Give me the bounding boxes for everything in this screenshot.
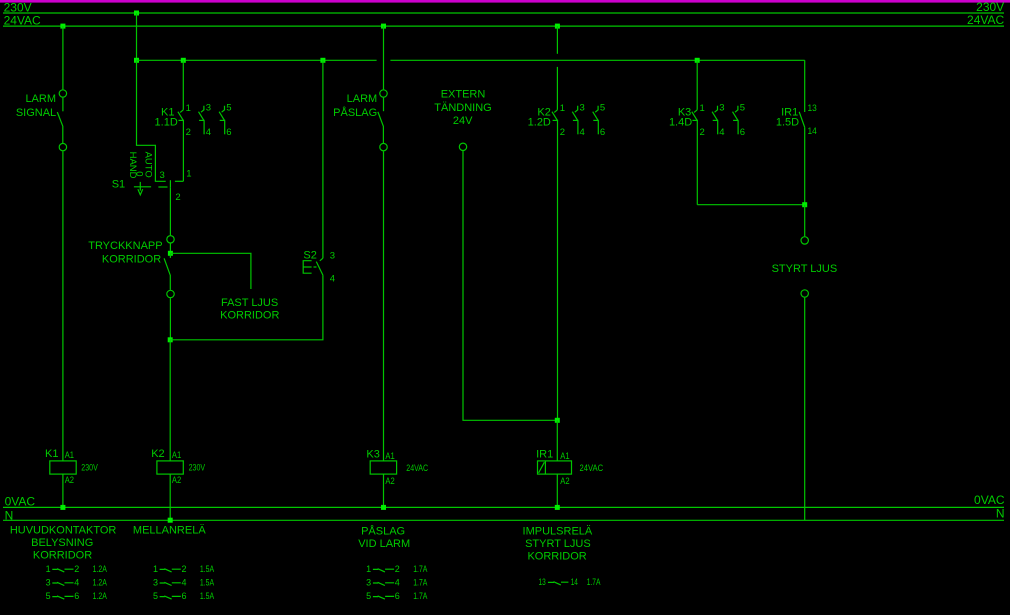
svg-text:1: 1 (186, 103, 191, 114)
pin 3 label K1 (206, 103, 211, 114)
contact table K3 row 1-2 (366, 564, 427, 574)
contact table K2 row 5-6 (153, 591, 214, 601)
wire from 24VAC bus down to LARM SIGNAL switch (62, 26, 64, 89)
svg-text:A2: A2 (65, 475, 74, 486)
svg-text:SIGNAL: SIGNAL (16, 107, 56, 119)
pin 4 label K3 (719, 127, 724, 138)
switch S2 (303, 249, 323, 275)
svg-text:1.2A: 1.2A (93, 591, 107, 601)
svg-text:14: 14 (808, 126, 817, 137)
pin 14 label IR1 (808, 126, 817, 137)
pin 5 label K2 (600, 103, 605, 114)
terminal circle upper LARM SIGNAL (59, 90, 66, 97)
node junction rail at x136 (134, 58, 139, 63)
wire K2 coil A2 to N (169, 474, 171, 520)
pin 6 label K1 (226, 127, 231, 138)
svg-text:0VAC: 0VAC (5, 494, 36, 508)
wire EXTERN TANDNING down and right to K2 output node (463, 151, 557, 420)
svg-text:13: 13 (808, 103, 817, 114)
node junction EXTERN join (555, 418, 560, 423)
pin 13 label IR1 (808, 103, 817, 114)
contact table K1 row 1-2 (46, 564, 107, 574)
svg-text:STYRT LJUS: STYRT LJUS (772, 263, 838, 275)
svg-text:N: N (996, 506, 1005, 520)
svg-text:1: 1 (366, 564, 371, 574)
svg-text:KORRIDOR: KORRIDOR (102, 254, 161, 266)
svg-text:4: 4 (206, 127, 211, 138)
bus N (3, 506, 1005, 522)
svg-text:S2: S2 (303, 249, 316, 261)
svg-text:24VAC: 24VAC (580, 463, 604, 473)
svg-text:A2: A2 (172, 475, 181, 486)
wire LARM SIGNAL to K1 coil A1 (62, 151, 64, 461)
svg-text:MELLANRELÄ: MELLANRELÄ (133, 525, 206, 537)
svg-text:5: 5 (740, 103, 745, 114)
contactor contact K2 1.2D main contact 1-2 (552, 110, 558, 421)
wire K3 contact output right to IR1 node (697, 204, 804, 206)
terminal circle upper STYRT LJUS (801, 237, 808, 244)
node junction K1 on 0VAC (60, 505, 65, 510)
terminal circle lower STYRT LJUS (801, 290, 808, 297)
svg-text:6: 6 (740, 127, 745, 138)
coil K1 (45, 448, 98, 486)
node junction on 230V bus at K1 branch (134, 11, 139, 16)
wire K3 coil A2 to 0VAC (383, 474, 385, 507)
label MELLANRELA (133, 525, 206, 537)
label HUVUDKONTAKTOR BELYSNING KORRIDOR (10, 525, 117, 562)
wire K1 coil A2 to 0VAC (62, 474, 64, 507)
svg-text:1.2D: 1.2D (528, 117, 551, 129)
svg-text:IR1: IR1 (536, 448, 553, 460)
svg-text:1.4D: 1.4D (669, 117, 692, 129)
svg-text:6: 6 (226, 127, 231, 138)
coil K2 (151, 448, 205, 486)
switch LARM SIGNAL (16, 93, 63, 143)
svg-text:EXTERN: EXTERN (441, 88, 486, 100)
wire circle to branch node (169, 243, 171, 253)
svg-text:BELYSNING: BELYSNING (31, 537, 93, 549)
svg-text:3: 3 (160, 170, 165, 181)
svg-text:STYRT LJUS: STYRT LJUS (525, 538, 591, 550)
svg-text:N: N (5, 508, 14, 522)
svg-text:13: 13 (539, 577, 546, 587)
svg-text:1: 1 (700, 103, 705, 114)
svg-text:1.2A: 1.2A (93, 578, 107, 588)
wire rail corner down to IR1 contact (804, 60, 806, 112)
svg-text:6: 6 (182, 591, 187, 601)
svg-text:A1: A1 (172, 450, 181, 461)
pin 2 label K3 (700, 127, 705, 138)
node junction on 24VAC bus at LARM SIGNAL branch (60, 24, 65, 29)
svg-text:2: 2 (560, 127, 565, 138)
wire join node down to K2 coil A1 (169, 340, 171, 461)
svg-text:3: 3 (330, 250, 335, 261)
svg-text:1.5A: 1.5A (200, 578, 214, 588)
wire 24VAC down to K2 contact upper part (556, 26, 558, 54)
svg-text:230V: 230V (81, 462, 98, 472)
svg-text:230V: 230V (4, 0, 32, 14)
svg-text:KORRIDOR: KORRIDOR (33, 549, 92, 561)
svg-text:2: 2 (175, 192, 180, 203)
coil IR1 impulse relay (536, 448, 603, 487)
svg-text:1: 1 (560, 103, 565, 114)
pin 2 label K2 (560, 127, 565, 138)
svg-text:3: 3 (580, 103, 585, 114)
svg-text:3: 3 (719, 103, 724, 114)
svg-text:4: 4 (580, 127, 585, 138)
pin 4 label S2 (330, 274, 335, 285)
svg-text:1.7A: 1.7A (413, 591, 427, 601)
wire S2 down and left to join node (170, 275, 323, 340)
svg-text:24VAC: 24VAC (967, 13, 1004, 27)
svg-text:K1: K1 (45, 448, 58, 460)
contactor contact K3 spare 5-6 (733, 106, 739, 135)
pin 3 label K3 (719, 103, 724, 114)
pin 5 label K1 (226, 103, 231, 114)
svg-text:4: 4 (182, 578, 187, 588)
wire S1 output down to push-button (169, 188, 171, 235)
bus 230V (3, 0, 1004, 14)
svg-text:6: 6 (74, 591, 79, 601)
svg-text:HUVUDKONTAKTOR: HUVUDKONTAKTOR (10, 525, 117, 537)
pin 5 label K3 (740, 103, 745, 114)
svg-text:14: 14 (571, 577, 578, 587)
contact table K3 row 5-6 (366, 591, 427, 601)
pin 4 label K2 (580, 127, 585, 138)
svg-text:1.1D: 1.1D (155, 117, 178, 129)
node junction K3 on 0VAC (381, 505, 386, 510)
wire rail right segment (390, 59, 804, 61)
terminal circle lower LARM PASLAG (380, 143, 387, 150)
contactor contact K1 spare 3-4 (199, 106, 205, 135)
label K2 (528, 107, 551, 129)
svg-text:2: 2 (186, 127, 191, 138)
svg-text:A1: A1 (560, 451, 569, 462)
svg-text:S1: S1 (112, 179, 125, 191)
svg-text:FAST LJUS: FAST LJUS (221, 297, 278, 309)
svg-text:1: 1 (153, 564, 158, 574)
contact table K2 row 1-2 (153, 564, 214, 574)
svg-text:1.5A: 1.5A (200, 591, 214, 601)
svg-text:230V: 230V (189, 462, 206, 472)
node junction on 24VAC bus at K2 branch (555, 24, 560, 29)
svg-text:2: 2 (182, 564, 187, 574)
coil K3 (366, 448, 428, 487)
svg-text:0VAC: 0VAC (974, 493, 1005, 507)
contact table K1 row 5-6 (46, 591, 107, 601)
svg-text:IMPULSRELÄ: IMPULSRELÄ (523, 525, 593, 537)
svg-text:4: 4 (330, 274, 335, 285)
svg-text:TÄNDNING: TÄNDNING (434, 102, 491, 114)
pin 1 label K1 (186, 103, 191, 114)
svg-text:24VAC: 24VAC (406, 463, 428, 473)
terminal circle lower LARM SIGNAL (59, 143, 66, 150)
contact table IR1 row 13-14 (539, 577, 601, 587)
svg-text:K3: K3 (366, 448, 379, 460)
wire 24VAC down to LARM PASLAG (383, 26, 385, 89)
svg-text:3: 3 (206, 103, 211, 114)
pin 2 label K1 (186, 127, 191, 138)
svg-text:A2: A2 (385, 476, 394, 487)
label K3 (669, 107, 692, 129)
svg-text:5: 5 (600, 103, 605, 114)
pin 3 label K2 (580, 103, 585, 114)
pin 6 label K3 (740, 127, 745, 138)
svg-text:1.5D: 1.5D (776, 117, 799, 129)
terminal circle lower TRYCKKNAPP (167, 290, 174, 297)
terminal circle upper LARM PASLAG (380, 90, 387, 97)
svg-text:A1: A1 (65, 450, 74, 461)
node junction rail at K1 contact (181, 58, 186, 63)
svg-text:3: 3 (366, 578, 371, 588)
label IR1 (776, 107, 799, 129)
wire 230V bus down to rail (136, 13, 138, 60)
wire TRYCKKNAPP down to S2 join node (169, 298, 171, 340)
pin 1 label K2 (560, 103, 565, 114)
svg-text:KORRIDOR: KORRIDOR (527, 550, 586, 562)
svg-text:3: 3 (46, 578, 51, 588)
top border bar (0, 0, 1010, 3)
svg-text:LARM: LARM (347, 93, 378, 105)
contactor contact K1 1.1D main contact 1-2 (178, 60, 184, 181)
wire rail down to K3 contact (696, 60, 698, 110)
label FAST LJUS KORRIDOR (220, 297, 279, 322)
svg-text:2: 2 (700, 127, 705, 138)
node junction rail at K3 contact (695, 58, 700, 63)
pin 2 label S1 (175, 192, 180, 203)
node junction on 24VAC bus at LARM PASLAG branch (381, 24, 386, 29)
wire node down to IR1 coil A1 (556, 420, 558, 461)
svg-text:5: 5 (46, 591, 51, 601)
svg-text:230V: 230V (976, 0, 1004, 14)
wire node down to STYRT LJUS terminal (804, 205, 806, 237)
pin 6 label K2 (600, 127, 605, 138)
svg-text:6: 6 (600, 127, 605, 138)
svg-text:PÅSLAG: PÅSLAG (361, 524, 405, 537)
wire LARM PASLAG to K3 coil A1 (383, 151, 385, 461)
contact table K1 row 3-4 (46, 578, 107, 588)
svg-text:6: 6 (395, 591, 400, 601)
wire rail down and jog to S1 pin 3 (137, 60, 166, 181)
label IMPULSRELA STYRT LJUS KORRIDOR (523, 525, 593, 562)
svg-text:1: 1 (186, 169, 191, 180)
svg-text:A2: A2 (560, 476, 569, 487)
svg-text:1: 1 (46, 564, 51, 574)
label HAND rotated (127, 152, 138, 179)
label K1 (155, 107, 178, 129)
svg-text:5: 5 (226, 103, 231, 114)
svg-text:4: 4 (719, 127, 724, 138)
node junction K3/IR1 join (802, 202, 807, 207)
label AUTO rotated (143, 152, 154, 178)
svg-text:2: 2 (74, 564, 79, 574)
wire STYRT LJUS down to N bus (804, 298, 806, 521)
svg-text:4: 4 (74, 578, 79, 588)
bus 0VAC (3, 493, 1005, 508)
terminal circle EXTERN TANDNING (459, 143, 466, 150)
selector switch S1 (134, 180, 183, 195)
pin 1 label K3 (700, 103, 705, 114)
label EXTERN TANDNING 24V (434, 88, 491, 127)
svg-text:5: 5 (153, 591, 158, 601)
svg-text:TRYCKKNAPP: TRYCKKNAPP (88, 240, 162, 252)
svg-text:1.2A: 1.2A (93, 564, 107, 574)
terminal circle upper TRYCKKNAPP (167, 236, 174, 243)
wire rail down to switch S2 (322, 60, 324, 258)
svg-text:5: 5 (366, 591, 371, 601)
contact table K3 row 3-4 (366, 578, 427, 588)
pin 1 label S1 (186, 169, 191, 180)
svg-text:24V: 24V (453, 115, 473, 127)
svg-text:AUTO: AUTO (143, 152, 154, 178)
svg-text:PÅSLAG: PÅSLAG (333, 106, 377, 119)
push-button TRYCKKNAPP KORRIDOR (88, 240, 170, 290)
pin 4 label K1 (206, 127, 211, 138)
contactor contact K1 spare 5-6 (219, 106, 225, 135)
node junction FAST LJUS branch (168, 251, 173, 256)
node junction IR1 on 0VAC (555, 505, 560, 510)
svg-text:K2: K2 (151, 448, 164, 460)
label 0 rotated (133, 171, 144, 176)
contactor contact K3 spare 3-4 (712, 106, 718, 135)
svg-text:4: 4 (395, 578, 400, 588)
label S1 (112, 179, 125, 191)
contact table K2 row 3-4 (153, 578, 214, 588)
switch LARM PASLAG (333, 93, 383, 143)
label STYRT LJUS (772, 263, 838, 275)
wire rail left segment (137, 59, 377, 61)
svg-text:1.7A: 1.7A (413, 578, 427, 588)
svg-text:24VAC: 24VAC (4, 13, 41, 27)
contactor contact K2 spare 3-4 (572, 106, 578, 135)
contactor contact K2 spare 5-6 (593, 106, 599, 135)
svg-text:KORRIDOR: KORRIDOR (220, 310, 279, 322)
svg-text:A1: A1 (385, 451, 394, 462)
svg-text:VID LARM: VID LARM (358, 538, 410, 550)
label PASLAG VID LARM (358, 524, 410, 550)
pin 3 label S2 (330, 250, 335, 261)
wire IR1 coil A2 to 0VAC (556, 474, 558, 507)
pin 3 label S1 (160, 170, 165, 181)
svg-text:2: 2 (395, 564, 400, 574)
contactor contact K3 1.4D main contact 1-2 (692, 110, 698, 205)
svg-text:LARM: LARM (25, 93, 56, 105)
bus 24VAC (3, 13, 1005, 28)
wire K2 contact upper part below rail crossing gap (556, 67, 558, 110)
svg-text:3: 3 (153, 578, 158, 588)
svg-text:1.7A: 1.7A (413, 564, 427, 574)
svg-text:1.7A: 1.7A (587, 577, 601, 587)
node junction K2 on N (168, 518, 173, 523)
node junction rail at S2 branch (320, 58, 325, 63)
impulse relay contact IR1 1.5D 13-14 (799, 112, 805, 205)
node junction S2 join (168, 337, 173, 342)
svg-text:1.5A: 1.5A (200, 564, 214, 574)
wire FAST LJUS branch (170, 253, 251, 289)
